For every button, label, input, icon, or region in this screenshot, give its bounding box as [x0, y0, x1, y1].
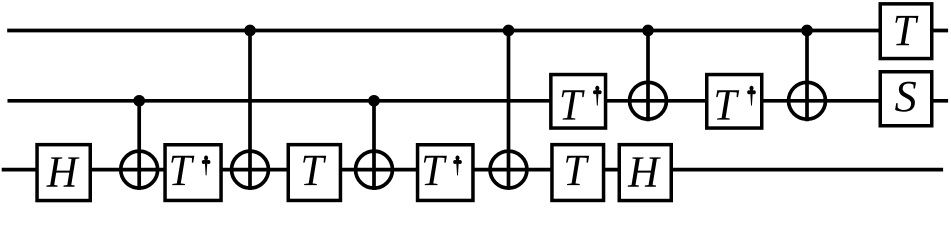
control dot CNOT6 on q0 [801, 25, 813, 37]
gate T 1 (q2) [288, 145, 340, 201]
CNOT2 target on q2 [232, 151, 269, 188]
CNOT6 target on q1 [789, 82, 826, 119]
wire: CNOT6 vertical q0-q1 [805, 31, 809, 122]
CNOT1 target on q2 [121, 151, 158, 188]
control dot CNOT3 on q1 [368, 95, 380, 107]
wire: CNOT4 vertical q0-q2 [507, 31, 511, 190]
control dot CNOT1 on q1 [133, 95, 145, 107]
wire: CNOT2 vertical q0-q2 [248, 31, 252, 190]
qubit wire q0 (top) [7, 29, 948, 33]
gate H (second, q2) [619, 145, 671, 201]
gate T-dagger 2 (q2) [418, 145, 473, 201]
wire: CNOT3 vertical q1-q2 [372, 101, 376, 190]
CNOT4 target on q2 [490, 151, 527, 188]
control dot CNOT5 on q0 [642, 25, 654, 37]
gate T (q0) [880, 4, 932, 59]
gate T-dagger 3 (q1) [551, 75, 606, 129]
gate T-dagger 1 (q2) [165, 145, 221, 201]
gate S (q1) [880, 72, 932, 126]
control dot CNOT2 on q0 [244, 25, 256, 37]
gate T-dagger 4 (q1) [707, 75, 762, 129]
qubit wire q1 (middle) [8, 99, 949, 103]
CNOT5 target on q1 [630, 82, 667, 119]
control dot CNOT4 on q0 [503, 25, 515, 37]
wire: CNOT1 vertical q1-q2 [137, 101, 141, 190]
CNOT3 target on q2 [356, 151, 393, 188]
gate T 2 (q2) [552, 145, 604, 201]
wire: CNOT5 vertical q0-q1 [646, 31, 650, 122]
gate H (first, q2) [37, 145, 90, 201]
qubit wire q2 (bottom) [2, 168, 943, 172]
